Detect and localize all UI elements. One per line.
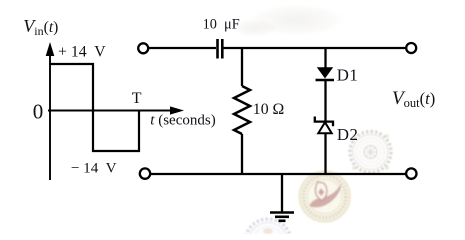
svg-text:+ 14 V: + 14 V — [58, 44, 106, 61]
svg-text:Vout(t): Vout(t) — [392, 88, 435, 110]
svg-text:T: T — [132, 90, 142, 107]
svg-text:Vin(t): Vin(t) — [23, 16, 58, 38]
svg-text:0: 0 — [33, 100, 44, 124]
svg-text:10 μF: 10 μF — [203, 16, 240, 32]
svg-text:D2: D2 — [337, 125, 359, 144]
svg-text:D1: D1 — [337, 66, 359, 85]
svg-text:t (seconds): t (seconds) — [150, 112, 215, 128]
svg-text:− 14 V: − 14 V — [71, 159, 117, 176]
svg-text:10 Ω: 10 Ω — [253, 101, 284, 118]
